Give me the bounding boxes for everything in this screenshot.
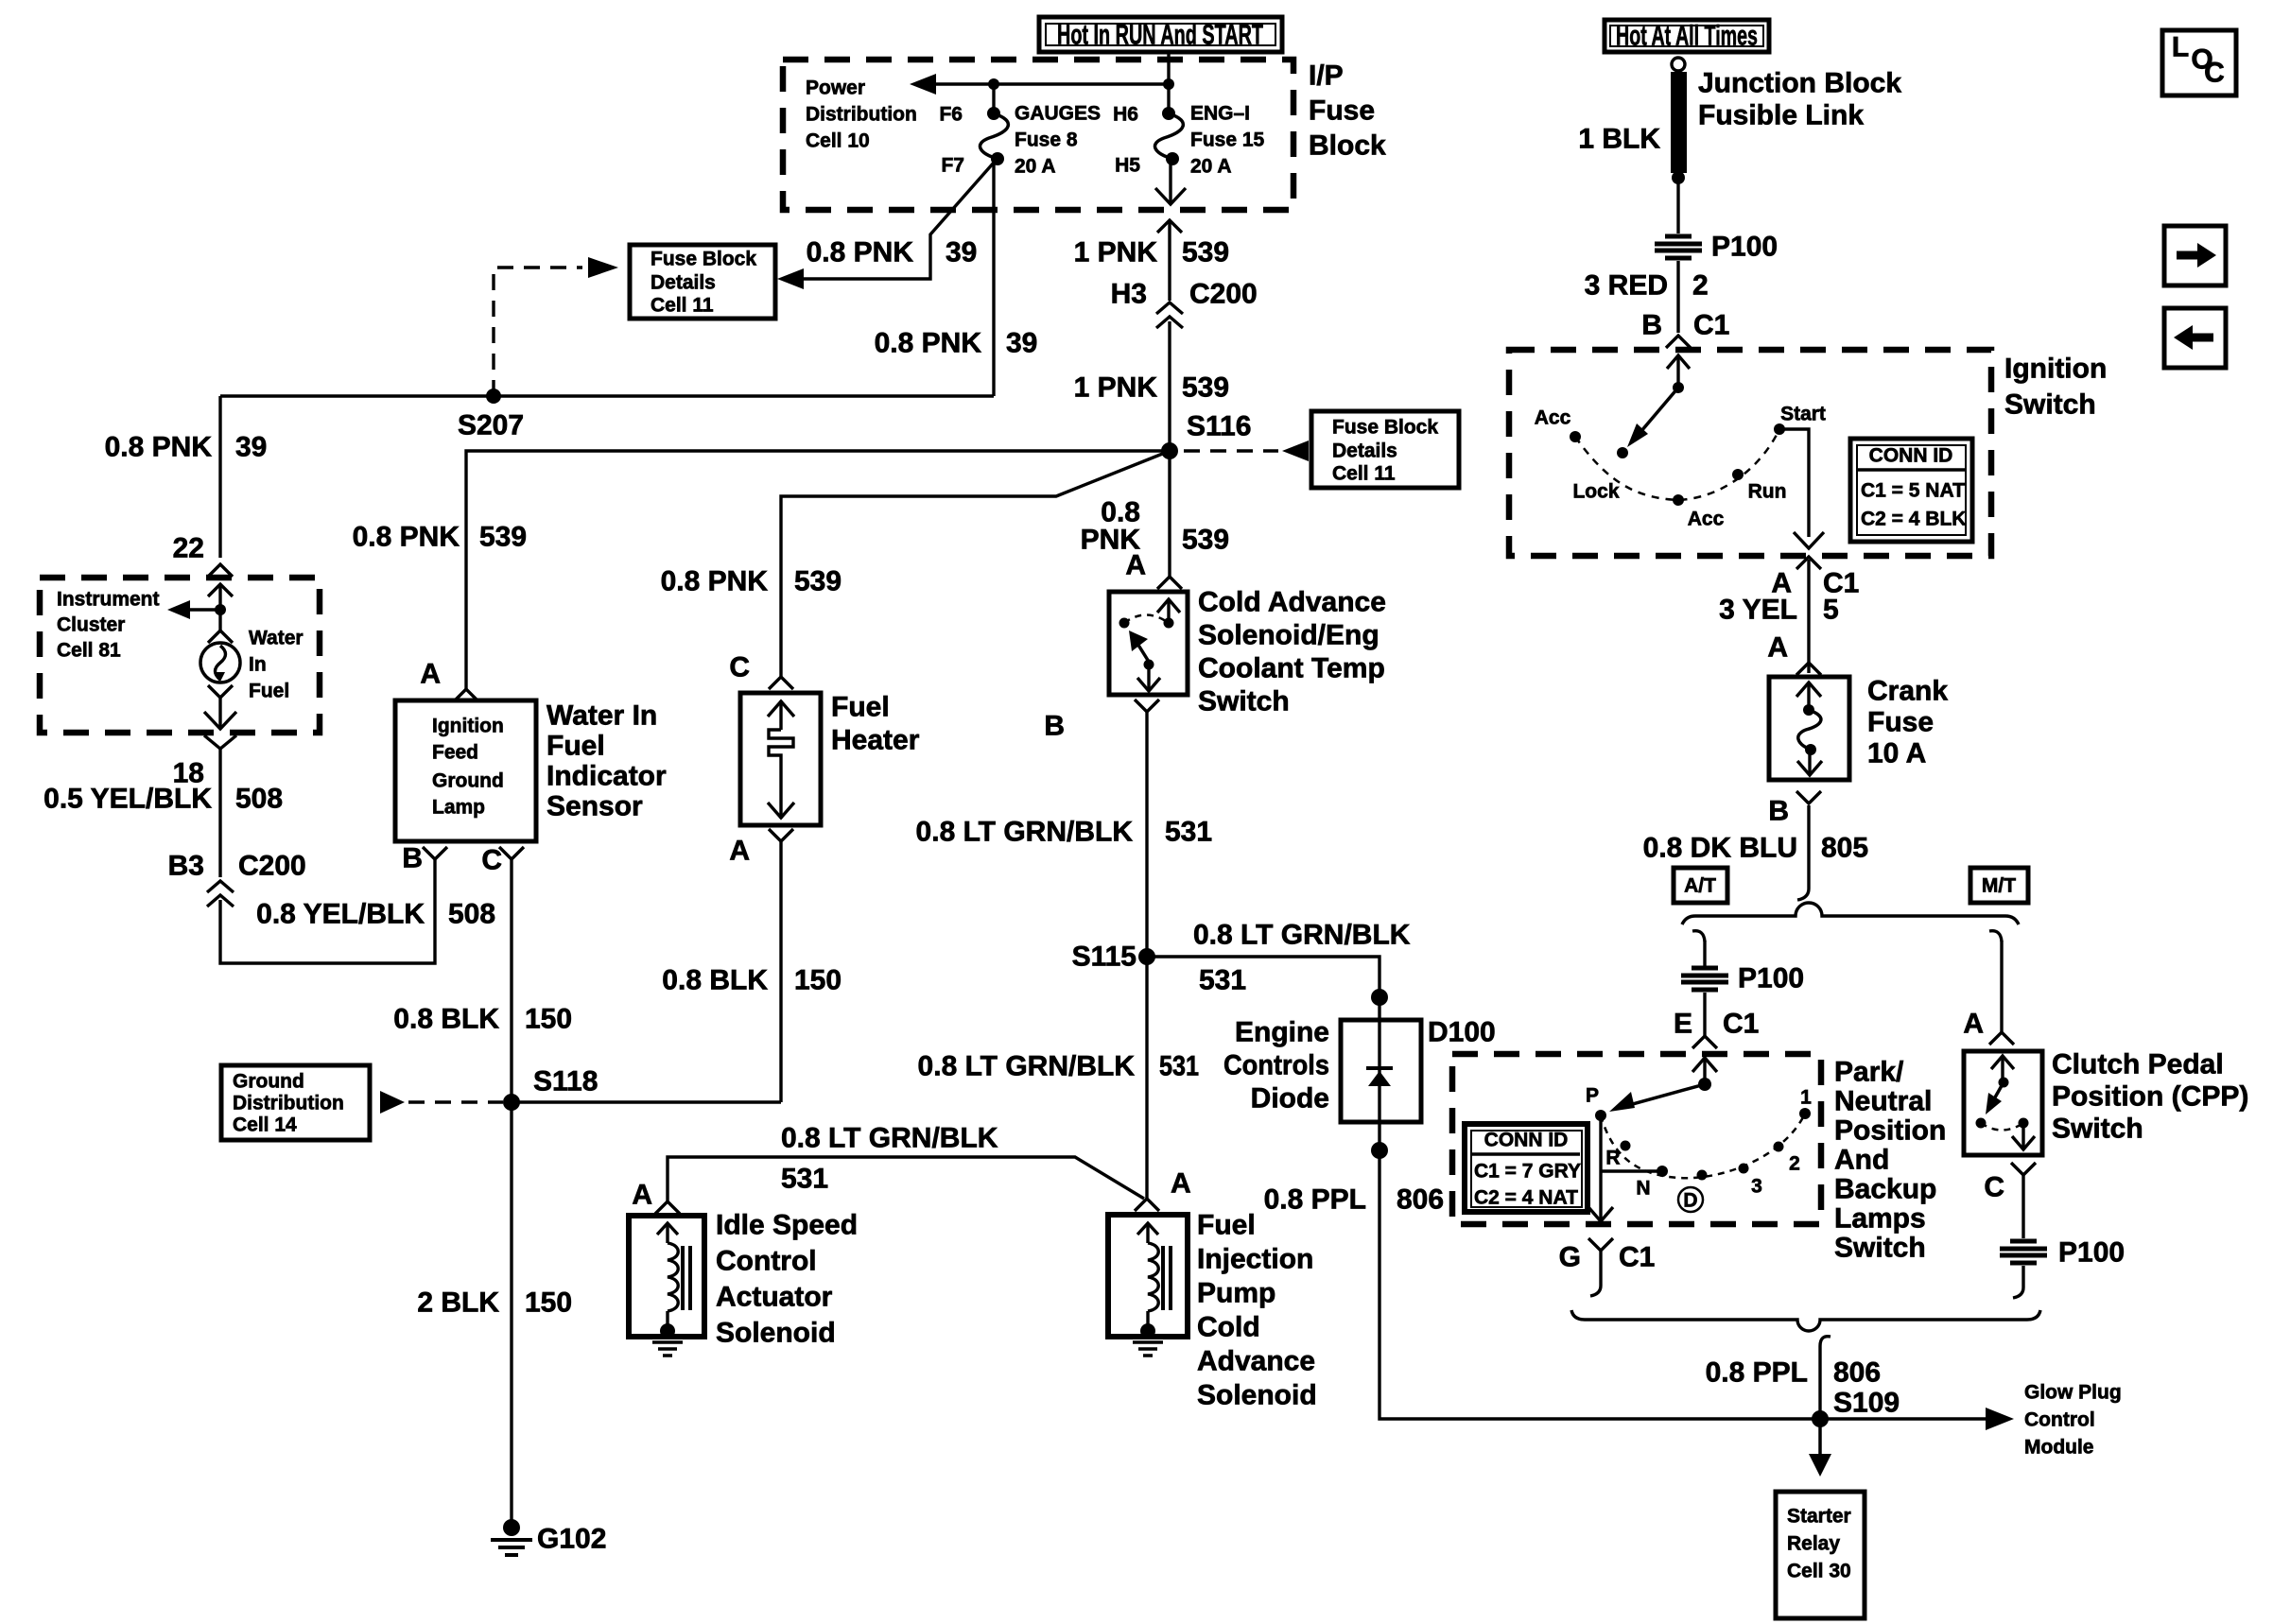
svg-text:Cell 10: Cell 10 — [806, 130, 870, 152]
connector P100 (top) — [1655, 232, 1778, 263]
svg-text:Solenoid/Eng: Solenoid/Eng — [1198, 620, 1379, 651]
wire: F7 diagonal to fuse-block-details arrow — [800, 163, 994, 279]
svg-text:M/T: M/T — [1982, 875, 2016, 897]
svg-text:0.8 BLK: 0.8 BLK — [393, 1004, 499, 1035]
svg-text:Indicator: Indicator — [547, 761, 667, 792]
CPP contacts — [1976, 1056, 2036, 1149]
wire: header box down to bus — [1167, 52, 1170, 84]
starter relay box — [1776, 1492, 1865, 1618]
svg-text:A: A — [1171, 1168, 1191, 1200]
moving contact arm — [1627, 355, 1690, 447]
gather bracket — [1571, 1310, 2040, 1331]
connector P100 (A/T) — [1681, 963, 1804, 994]
svg-text:G102: G102 — [537, 1524, 606, 1555]
dashed contact arc — [1575, 429, 1779, 500]
ground below idle solenoid — [652, 1342, 683, 1356]
M/T branch hook — [1989, 931, 2002, 942]
svg-text:Starter: Starter — [1787, 1506, 1851, 1528]
svg-text:Ground: Ground — [432, 770, 504, 792]
svg-text:Run: Run — [1748, 481, 1787, 503]
svg-text:806: 806 — [1397, 1184, 1444, 1216]
dashed contact arc (P/N) — [1601, 1114, 1805, 1178]
wire: H5 down and out of fuse block — [1169, 159, 1171, 204]
svg-text:Acc: Acc — [1535, 407, 1571, 429]
fuel injection pump solenoid box — [1108, 1215, 1188, 1337]
heater element symbol — [768, 700, 794, 819]
svg-text:0.8 BLK: 0.8 BLK — [662, 965, 768, 996]
svg-text:Water: Water — [249, 628, 304, 649]
svg-text:0.8 PNK: 0.8 PNK — [875, 328, 982, 359]
svg-text:A: A — [729, 836, 750, 867]
svg-text:3: 3 — [1751, 1176, 1762, 1198]
svg-text:Instrument: Instrument — [57, 589, 160, 611]
svg-text:Park/: Park/ — [1834, 1057, 1904, 1088]
svg-text:508: 508 — [235, 784, 283, 815]
node S115 — [1138, 948, 1155, 965]
conn id box (ignition) — [1850, 439, 1972, 542]
svg-text:150: 150 — [525, 1287, 572, 1319]
svg-text:Switch: Switch — [2052, 1114, 2143, 1145]
svg-text:A: A — [1767, 632, 1788, 664]
svg-text:C200: C200 — [1189, 279, 1258, 310]
svg-text:Ground: Ground — [233, 1071, 304, 1093]
contact Lock — [1617, 447, 1628, 458]
dashed reference arrow to S118 — [380, 1091, 405, 1114]
svg-text:1: 1 — [1800, 1087, 1812, 1109]
svg-text:H5: H5 — [1115, 155, 1140, 177]
svg-text:Ignition: Ignition — [432, 716, 504, 737]
svg-text:1 BLK: 1 BLK — [1578, 124, 1660, 155]
svg-text:Diode: Diode — [1251, 1083, 1329, 1114]
left arrow box — [2164, 308, 2226, 368]
svg-text:B3: B3 — [168, 851, 204, 882]
clutch pedal position switch box — [1964, 1051, 2042, 1155]
svg-text:G: G — [1559, 1242, 1581, 1273]
label: Idle Speed Control Actuator Solenoid — [716, 1210, 858, 1349]
terminal chevron below fuse block — [1157, 220, 1182, 233]
svg-text:Switch: Switch — [2004, 389, 2096, 421]
svg-text:S116: S116 — [1187, 411, 1251, 442]
diode symbol — [1366, 1020, 1393, 1122]
svg-text:Fuse 15: Fuse 15 — [1190, 130, 1265, 151]
svg-text:539: 539 — [1182, 237, 1229, 268]
label: Crank Fuse 10 A — [1867, 676, 1948, 769]
svg-text:531: 531 — [1165, 817, 1212, 848]
fuse block details box 2 — [1311, 411, 1459, 488]
wire: heater pin A down to S118 run — [779, 841, 782, 1102]
svg-text:39: 39 — [1006, 328, 1037, 359]
svg-text:539: 539 — [479, 522, 527, 553]
fuse F6/F7 GAUGES Fuse 8 — [939, 84, 1101, 178]
split bracket — [1682, 903, 2019, 924]
diode D100 box — [1341, 1020, 1421, 1122]
svg-text:P100: P100 — [1738, 963, 1804, 994]
node on bus at F6 drop — [988, 78, 999, 90]
svg-text:0.8 YEL/BLK: 0.8 YEL/BLK — [256, 899, 425, 930]
label: Power Distribution Cell 10 — [806, 78, 917, 152]
svg-text:Heater: Heater — [831, 725, 920, 756]
wire: S115 right to D100 — [1147, 957, 1379, 1020]
svg-text:Solenoid: Solenoid — [716, 1318, 836, 1349]
svg-text:Crank: Crank — [1867, 676, 1948, 707]
svg-text:Fuse Block: Fuse Block — [651, 249, 756, 270]
svg-text:Sensor: Sensor — [547, 791, 643, 822]
svg-text:Block: Block — [1309, 130, 1386, 162]
svg-text:2: 2 — [1789, 1153, 1800, 1175]
wire: bracket to S109 — [1820, 1337, 1831, 1419]
svg-text:Cell 14: Cell 14 — [233, 1114, 297, 1136]
wire: CPP down to P100 — [2021, 1175, 2024, 1238]
coil symbol — [657, 1223, 690, 1339]
fuel heater box — [740, 693, 821, 825]
svg-text:508: 508 — [448, 899, 495, 930]
svg-text:A: A — [632, 1180, 652, 1211]
contact Start — [1774, 423, 1785, 435]
svg-text:Position (CPP): Position (CPP) — [2052, 1081, 2248, 1113]
svg-text:20 A: 20 A — [1190, 156, 1232, 178]
svg-text:Injection: Injection — [1197, 1244, 1313, 1275]
svg-text:H6: H6 — [1113, 104, 1138, 126]
svg-text:0.8 PPL: 0.8 PPL — [1706, 1357, 1808, 1389]
wire: fusible link to P100 — [1676, 178, 1679, 233]
svg-text:Feed: Feed — [432, 742, 478, 764]
switch contacts inside — [1119, 599, 1181, 691]
svg-text:A/T: A/T — [1684, 875, 1716, 897]
svg-text:B: B — [1768, 796, 1789, 827]
wire: S116 diagonal + run to fuel heater pin C — [781, 451, 1170, 677]
svg-text:2 BLK: 2 BLK — [417, 1287, 499, 1319]
node S207 — [486, 389, 501, 404]
svg-text:C1 = 7 GRY: C1 = 7 GRY — [1474, 1161, 1581, 1183]
svg-text:B: B — [1641, 310, 1662, 341]
svg-text:A: A — [420, 659, 441, 690]
idle speed control actuator solenoid box — [629, 1216, 704, 1337]
wire: S109 to glow plug control module — [1820, 1417, 1993, 1421]
svg-text:Clutch Pedal: Clutch Pedal — [2052, 1049, 2224, 1080]
svg-text:Relay: Relay — [1787, 1533, 1840, 1555]
svg-text:Fuel: Fuel — [547, 731, 605, 762]
svg-text:Hot In RUN And START: Hot In RUN And START — [1057, 20, 1263, 51]
svg-text:P: P — [1586, 1085, 1599, 1107]
svg-text:CONN ID: CONN ID — [1869, 445, 1953, 467]
svg-text:539: 539 — [794, 566, 842, 597]
label: Water In Fuel — [249, 628, 304, 702]
svg-text:Controls: Controls — [1223, 1050, 1329, 1081]
svg-text:Engine: Engine — [1235, 1017, 1329, 1048]
svg-text:0.8 LT GRN/BLK: 0.8 LT GRN/BLK — [918, 1051, 1136, 1082]
ground G102 — [491, 1519, 606, 1555]
node S109 — [1812, 1410, 1829, 1427]
wire: pin C down to S118 — [510, 859, 512, 1102]
ground below fuel injection solenoid — [1133, 1342, 1163, 1356]
svg-text:Details: Details — [651, 272, 716, 294]
svg-text:Switch: Switch — [1198, 686, 1290, 717]
svg-text:P100: P100 — [1711, 232, 1778, 263]
arc dot (R) — [1621, 1141, 1631, 1151]
cold advance switch box — [1109, 592, 1188, 695]
A/T branch hook — [1692, 931, 1705, 942]
I/P fuse block dashed box — [783, 60, 1293, 210]
arc dot (2) — [1774, 1142, 1784, 1152]
wire: internal bus with left arrow — [930, 82, 1169, 85]
svg-text:531: 531 — [1199, 965, 1246, 996]
contact P — [1595, 1110, 1606, 1121]
wire: P100 to P/N switch — [1703, 993, 1706, 1036]
svg-text:0.8 LT GRN/BLK: 0.8 LT GRN/BLK — [916, 817, 1134, 848]
fuse symbol inside — [1796, 682, 1822, 775]
svg-text:D: D — [1683, 1190, 1697, 1212]
svg-text:Position: Position — [1834, 1115, 1946, 1147]
svg-text:Solenoid: Solenoid — [1197, 1380, 1317, 1411]
svg-text:C: C — [2204, 58, 2225, 89]
svg-text:Switch: Switch — [1834, 1233, 1926, 1264]
svg-text:1 PNK: 1 PNK — [1074, 237, 1158, 268]
wire: pin B down to S115 — [1145, 712, 1148, 1199]
svg-text:Lamp: Lamp — [432, 797, 485, 819]
svg-text:Cold: Cold — [1197, 1312, 1260, 1343]
node on bus at H6 drop — [1163, 78, 1174, 90]
wire: S116 left to water-in-fuel sensor pin A — [466, 451, 1170, 689]
svg-text:150: 150 — [794, 965, 842, 996]
wire: P100 down to bracket — [2021, 1266, 2024, 1287]
svg-text:Cluster: Cluster — [57, 614, 125, 636]
svg-text:Pump: Pump — [1197, 1278, 1275, 1309]
svg-text:C1: C1 — [1619, 1242, 1655, 1273]
wire: 1 PNK 539 from C200 to S116 — [1168, 321, 1171, 451]
svg-text:C: C — [729, 652, 750, 683]
svg-text:I/P: I/P — [1309, 60, 1344, 92]
svg-text:Control: Control — [716, 1246, 817, 1277]
park/neutral dashed box — [1452, 1054, 1821, 1224]
svg-text:Control: Control — [2024, 1409, 2095, 1431]
svg-text:10 A: 10 A — [1867, 738, 1926, 769]
contact Run — [1732, 469, 1744, 480]
svg-text:Neutral: Neutral — [1834, 1086, 1932, 1117]
svg-text:C: C — [481, 845, 502, 876]
svg-text:0.8 LT GRN/BLK: 0.8 LT GRN/BLK — [781, 1123, 998, 1154]
svg-text:S118: S118 — [533, 1066, 598, 1097]
arc dot (3) — [1739, 1164, 1749, 1174]
svg-text:806: 806 — [1833, 1357, 1881, 1389]
svg-text:D100: D100 — [1428, 1017, 1496, 1048]
wire: ignition to crank fuse — [1807, 560, 1810, 673]
wire: 0.5 YEL/BLK 508 to C200 — [218, 749, 221, 877]
svg-text:805: 805 — [1821, 833, 1868, 864]
wire: R leg down out of box — [1599, 1171, 1602, 1221]
svg-text:Start: Start — [1780, 404, 1826, 425]
svg-text:Backup: Backup — [1834, 1174, 1936, 1205]
dashed reference from S207 to fuse block details — [494, 268, 582, 396]
svg-text:0.8 PNK: 0.8 PNK — [661, 566, 769, 597]
node below D100 — [1371, 1142, 1388, 1159]
svg-text:0.8 PPL: 0.8 PPL — [1264, 1184, 1366, 1216]
svg-text:ENG–I: ENG–I — [1190, 103, 1250, 125]
svg-text:Coolant Temp: Coolant Temp — [1198, 653, 1385, 684]
header box: Hot In RUN And START — [1039, 17, 1282, 52]
svg-text:Cell 81: Cell 81 — [57, 640, 121, 662]
svg-text:In: In — [249, 654, 267, 676]
arc dot (1) — [1799, 1108, 1811, 1119]
svg-text:39: 39 — [946, 237, 977, 268]
wire into cluster with arrow to instrument cluster — [208, 584, 233, 596]
svg-text:2: 2 — [1692, 270, 1709, 302]
header box: Hot At All Times — [1605, 20, 1769, 52]
wire: S116 down to cold advance pin A — [1168, 451, 1171, 577]
svg-text:0.8 PNK: 0.8 PNK — [353, 522, 460, 553]
svg-text:0.8 DK BLU: 0.8 DK BLU — [1643, 833, 1797, 864]
wire: 1 PNK 539 down to C200 — [1168, 220, 1171, 301]
svg-text:H3: H3 — [1111, 279, 1147, 310]
contact Acc (lower) — [1673, 494, 1684, 506]
label: Glow Plug Control Module — [2024, 1382, 2122, 1459]
svg-text:Distribution: Distribution — [233, 1093, 344, 1114]
svg-text:Hot At All Times: Hot At All Times — [1616, 21, 1758, 52]
svg-text:C2 = 4 BLK: C2 = 4 BLK — [1861, 509, 1966, 530]
svg-text:0.8 LT GRN/BLK: 0.8 LT GRN/BLK — [1193, 920, 1411, 951]
svg-text:Fuel: Fuel — [831, 692, 890, 723]
label: Park/Neutral Position And Backup Lamps Switch — [1834, 1057, 1946, 1264]
svg-text:3 RED: 3 RED — [1585, 270, 1668, 302]
svg-text:S115: S115 — [1072, 942, 1136, 973]
svg-text:Fuse Block: Fuse Block — [1332, 417, 1438, 439]
svg-text:Power: Power — [806, 78, 865, 99]
wire: S118 down to G102 — [510, 1102, 512, 1521]
arc dot (D) — [1697, 1170, 1708, 1181]
svg-text:And: And — [1834, 1145, 1889, 1176]
connector B3 / C200 — [168, 851, 306, 907]
pin G / C1 — [1588, 1238, 1613, 1251]
connector P100 (CPP) — [2000, 1237, 2125, 1269]
ground distribution box — [221, 1065, 370, 1140]
svg-text:Ignition: Ignition — [2004, 354, 2107, 385]
label: Instrument Cluster Cell 81 — [57, 589, 160, 662]
svg-text:Glow Plug: Glow Plug — [2024, 1382, 2122, 1404]
conn id box (P/N) — [1465, 1124, 1588, 1212]
contact Acc (upper) — [1570, 431, 1581, 442]
svg-text:Fuse 8: Fuse 8 — [1015, 130, 1078, 151]
svg-text:Cold Advance: Cold Advance — [1198, 587, 1386, 618]
water in fuel indicator lamp symbol — [200, 643, 240, 682]
wire: G down to bracket — [1599, 1251, 1602, 1286]
connector H3 / C200 — [1111, 279, 1258, 329]
fuse block details box 1 — [630, 245, 775, 319]
svg-text:N: N — [1636, 1178, 1650, 1200]
svg-text:Lamps: Lamps — [1834, 1203, 1926, 1235]
contact N — [1601, 1169, 1662, 1172]
label inside: Ignition Feed Ground Lamp — [432, 716, 504, 819]
svg-text:Junction Block: Junction Block — [1698, 68, 1901, 99]
svg-text:C1: C1 — [1693, 310, 1729, 341]
node S116 — [1161, 442, 1178, 459]
svg-text:Fuel: Fuel — [1197, 1210, 1256, 1241]
svg-text:0.8 PNK: 0.8 PNK — [105, 432, 213, 463]
right arrow box — [2164, 226, 2226, 285]
svg-text:P100: P100 — [2058, 1237, 2125, 1269]
moving contact arm (P/N) — [1609, 1058, 1717, 1112]
label: Clutch Pedal Position (CPP) Switch — [2052, 1049, 2248, 1145]
label: Water In Fuel Indicator Sensor — [547, 700, 667, 822]
svg-text:531: 531 — [1159, 1051, 1199, 1082]
wire: S207 horizontal bus — [220, 394, 994, 397]
svg-text:E: E — [1674, 1009, 1692, 1040]
wire below lamp, out of cluster — [208, 685, 233, 698]
svg-text:GAUGES: GAUGES — [1015, 103, 1101, 125]
svg-text:Fuse: Fuse — [1309, 95, 1375, 127]
LOC box — [2162, 30, 2236, 95]
svg-text:Acc: Acc — [1688, 509, 1725, 530]
M/T tag box — [1970, 868, 2028, 903]
wire: S118 to fuel heater leg — [512, 1100, 781, 1103]
wire: S109 down to starter relay — [1818, 1419, 1822, 1460]
wire: 0.8 YEL/BLK 508 to pin B of sensor — [220, 858, 435, 963]
wire: 0.8 PNK 39 down to 22 — [218, 396, 221, 558]
wire: P100 to ignition switch — [1676, 261, 1679, 333]
svg-text:A: A — [1963, 1009, 1984, 1040]
svg-text:39: 39 — [235, 432, 267, 463]
instrument cluster dashed box — [40, 578, 320, 733]
svg-text:B: B — [402, 843, 423, 874]
svg-text:531: 531 — [781, 1164, 828, 1195]
svg-text:3 YEL: 3 YEL — [1719, 595, 1797, 626]
water in fuel indicator sensor box — [395, 700, 536, 841]
wire: crank fuse down to split — [1807, 805, 1810, 889]
svg-text:C: C — [1984, 1172, 2004, 1203]
svg-text:B: B — [1044, 711, 1065, 742]
coil symbol — [1137, 1223, 1171, 1339]
svg-text:Module: Module — [2024, 1437, 2094, 1459]
svg-text:20 A: 20 A — [1015, 156, 1056, 178]
svg-text:Details: Details — [1332, 441, 1397, 462]
svg-text:1 PNK: 1 PNK — [1074, 372, 1158, 404]
svg-text:S109: S109 — [1833, 1388, 1900, 1419]
wire: 531 branch to idle solenoid pin A — [668, 1157, 1144, 1201]
fuse H6/H5 ENG-I Fuse 15 — [1113, 84, 1264, 178]
svg-text:CONN ID: CONN ID — [1484, 1130, 1569, 1151]
wire: D100 down to S109 run — [1379, 1122, 1820, 1419]
svg-text:Cell 11: Cell 11 — [1332, 463, 1396, 485]
junction block fusible link — [1671, 58, 1687, 184]
svg-text:150: 150 — [525, 1004, 572, 1035]
A/T tag box — [1674, 868, 1727, 903]
svg-text:Water In: Water In — [547, 700, 657, 732]
dashed reference S116 to fuse block details 2 — [1184, 449, 1278, 452]
label: Engine Controls Diode — [1223, 1017, 1329, 1114]
svg-text:A: A — [1125, 550, 1146, 581]
svg-text:Lock: Lock — [1572, 481, 1619, 503]
contact R leg — [1599, 1115, 1602, 1171]
svg-text:Cell 11: Cell 11 — [651, 295, 714, 317]
svg-text:0.5 YEL/BLK: 0.5 YEL/BLK — [43, 784, 212, 815]
label: Cold Advance Solenoid/Eng Coolant Temp Switch — [1198, 587, 1386, 717]
svg-text:0.8 PNK: 0.8 PNK — [807, 237, 914, 268]
crank fuse box — [1769, 677, 1849, 780]
svg-text:Fuse: Fuse — [1867, 707, 1934, 738]
svg-text:Fusible Link: Fusible Link — [1698, 100, 1864, 131]
wire: F7 vertical down to S207 bus — [992, 161, 995, 396]
svg-text:S207: S207 — [458, 410, 524, 441]
svg-text:C1 = 5 NAT: C1 = 5 NAT — [1861, 480, 1965, 502]
svg-text:Advance: Advance — [1197, 1346, 1315, 1377]
svg-text:C200: C200 — [238, 851, 306, 882]
label: Fuel Injection Pump Cold Advance Solenoid — [1197, 1210, 1317, 1411]
ignition switch dashed box — [1509, 350, 1991, 556]
svg-text:F6: F6 — [939, 104, 963, 126]
node S118 — [503, 1094, 520, 1111]
wire: Start out of box — [1779, 429, 1809, 537]
svg-text:539: 539 — [1182, 372, 1229, 404]
svg-text:539: 539 — [1182, 525, 1229, 556]
svg-text:Distribution: Distribution — [806, 104, 917, 126]
